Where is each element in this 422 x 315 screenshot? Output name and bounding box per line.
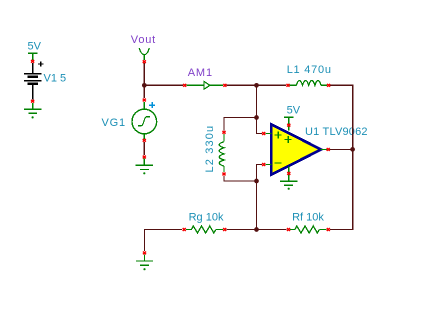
svg-text:5V: 5V — [287, 105, 301, 117]
wire Vout node to AM1 left — [144, 84, 183, 86]
wire L2 bottom horizontal — [224, 180, 257, 182]
inductor L1 — [290, 81, 327, 86]
wire overdraw right column across label — [352, 120, 354, 142]
pin Rf right — [327, 228, 330, 231]
node bottom-middle junction — [254, 227, 259, 232]
node top-middle junction — [254, 83, 259, 88]
wire middle node to op-amp +input — [257, 118, 262, 134]
wire Rf to bottom-right corner — [330, 229, 353, 231]
svg-text:L2 330u: L2 330u — [204, 125, 216, 173]
wire right column vertical — [352, 85, 354, 230]
ground (VG1) — [136, 159, 153, 170]
ground (Rg) — [136, 255, 153, 266]
svg-text:L1 470u: L1 470u — [287, 64, 332, 76]
pin Rg left — [183, 228, 186, 231]
pin op-amp V+ — [287, 124, 290, 127]
pin L2 top — [222, 131, 225, 134]
pin op-amp output — [327, 148, 330, 151]
op-amp output stub — [320, 148, 330, 150]
svg-text:5V: 5V — [28, 40, 42, 52]
ground (battery) — [24, 103, 42, 114]
plus mark VG1 — [149, 102, 155, 108]
wire lower-middle node to op-amp -input — [257, 165, 262, 182]
resistor Rg — [186, 226, 223, 233]
wire op-amp output to right column — [330, 148, 353, 150]
pin AM1 left — [183, 84, 186, 87]
svg-text:U1 TLV9062: U1 TLV9062 — [305, 126, 368, 138]
svg-text:VG1: VG1 — [102, 117, 126, 129]
op-amp V- stub — [288, 167, 290, 182]
wire L2 top vertical — [223, 117, 225, 131]
pin Rf left — [287, 228, 290, 231]
wire L2 bottom vertical — [223, 176, 225, 182]
power +5V symbol (op-amp) — [284, 117, 294, 130]
svg-text:AM1: AM1 — [188, 67, 213, 79]
ammeter AM1 — [186, 84, 223, 86]
op-amp -input stub — [265, 164, 271, 166]
node -input junction — [254, 179, 259, 184]
battery V1 — [24, 61, 43, 99]
op-amp plus mark — [275, 132, 282, 139]
svg-text:Vout: Vout — [131, 34, 156, 46]
svg-text:V1 5: V1 5 — [44, 72, 67, 84]
node +input junction — [254, 115, 259, 120]
pin VG1 ground — [143, 156, 146, 159]
inductor L2 — [219, 134, 224, 172]
pin VG1 bottom — [143, 139, 146, 142]
wire bottom-left corner to Rg — [144, 229, 182, 231]
pin L2 bottom — [222, 173, 225, 176]
op-amp minus mark — [275, 162, 282, 164]
node output junction — [350, 147, 355, 152]
pin Rg ground — [143, 252, 146, 255]
wire L1 right to top-right corner — [330, 84, 352, 86]
op-amp +input stub — [265, 133, 271, 135]
pin L1 left — [286, 84, 289, 87]
svg-text:Rf 10k: Rf 10k — [292, 211, 324, 223]
op-amp supply plus mark — [285, 136, 292, 143]
svg-text:Rg 10k: Rg 10k — [189, 211, 224, 223]
wire bottom-left vertical to ground — [144, 229, 146, 251]
wire middle column bottom segment — [256, 181, 258, 230]
wire Rg to bottom-middle node — [227, 229, 257, 231]
wire middle node to L1 left — [256, 84, 286, 86]
power +5V symbol (battery) — [28, 53, 38, 60]
pin op-amp -input — [262, 163, 265, 166]
pin AM1 right — [223, 84, 226, 87]
pin Vout — [143, 60, 146, 63]
pin L1 right — [327, 84, 330, 87]
pin VG1 top — [143, 99, 146, 102]
pin Rg right — [223, 228, 226, 231]
wire VG1 to ground — [143, 142, 145, 155]
generator VG1 — [132, 102, 157, 139]
wire bottom-middle node to Rf — [257, 229, 287, 231]
wire L2 top horizontal — [224, 117, 257, 119]
pin op-amp V- — [287, 172, 290, 175]
resistor Rf — [290, 226, 326, 233]
op-amp U1 body — [271, 124, 321, 174]
pin battery top — [31, 60, 34, 63]
wire middle column top segment — [256, 85, 258, 117]
pin battery bottom — [31, 100, 34, 103]
wire AM1 right to middle node — [227, 84, 258, 86]
ground (op-amp) — [280, 181, 297, 185]
output pin symbol Vout — [139, 48, 149, 60]
wire Vout column vertical — [143, 63, 145, 98]
node Vout junction — [142, 83, 147, 88]
pin op-amp +input — [262, 132, 265, 135]
